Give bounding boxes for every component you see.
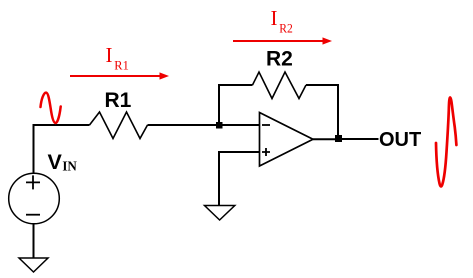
op-amp U1 — [260, 113, 314, 167]
input waveform — [41, 93, 61, 123]
wire feedback right vertical — [306, 85, 338, 135]
wire source to ground — [33, 224, 35, 258]
wire to OUT — [342, 138, 379, 140]
wire V_IN top stub — [34, 125, 90, 174]
ground op-amp plus input — [205, 206, 235, 221]
svg-text:R1: R1 — [105, 89, 132, 112]
wire plus input — [219, 152, 260, 205]
svg-text:R2: R2 — [266, 48, 293, 71]
wire R1 to node — [148, 124, 260, 126]
resistor R1 — [90, 112, 148, 139]
current arrow I_R2 — [233, 37, 332, 44]
node input junction — [216, 122, 223, 129]
current arrow I_R1 — [70, 72, 169, 79]
wire feedback left vertical — [219, 85, 253, 122]
resistor R2 — [253, 72, 307, 99]
op-amp plus pin mark — [262, 148, 270, 156]
svg-text:OUT: OUT — [379, 129, 421, 151]
source minus — [26, 214, 40, 216]
node output junction — [335, 135, 342, 142]
output waveform — [436, 97, 456, 186]
ground source — [19, 258, 48, 272]
source plus — [26, 175, 40, 189]
op-amp minus pin mark — [262, 124, 270, 126]
voltage source V1 — [9, 173, 60, 224]
wire op-amp output — [313, 138, 336, 140]
